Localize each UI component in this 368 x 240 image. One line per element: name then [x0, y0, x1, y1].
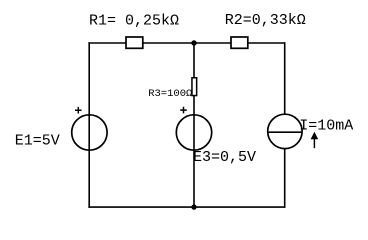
wire middle vertical branch: [193, 42, 195, 208]
svg-text:R1= 0,25kΩ: R1= 0,25kΩ: [89, 12, 179, 29]
wire left vertical branch: [88, 42, 90, 208]
svg-text:R3=100Ω: R3=100Ω: [148, 88, 192, 100]
E1 polarity plus: [75, 107, 82, 114]
current source I: [268, 114, 302, 148]
svg-text:I=10mA: I=10mA: [299, 117, 353, 134]
resistor R3: [192, 78, 197, 96]
svg-text:E1=5V: E1=5V: [15, 132, 60, 149]
svg-text:E3=0,5V: E3=0,5V: [193, 149, 256, 166]
resistor R1: [126, 37, 143, 48]
wire top horizontal from left corner to right corner: [88, 42, 285, 44]
voltage source E3: [176, 115, 211, 150]
svg-text:R2=0,33kΩ: R2=0,33kΩ: [225, 12, 306, 29]
E3 polarity plus: [180, 107, 187, 114]
voltage source E1: [72, 115, 107, 150]
current source I bar: [268, 131, 302, 133]
current direction arrow: [313, 138, 315, 148]
wire bottom horizontal: [88, 206, 285, 208]
wire right vertical branch: [284, 42, 286, 208]
node junction bottom: [191, 204, 196, 209]
node junction top: [191, 40, 196, 45]
resistor R2: [231, 37, 248, 48]
